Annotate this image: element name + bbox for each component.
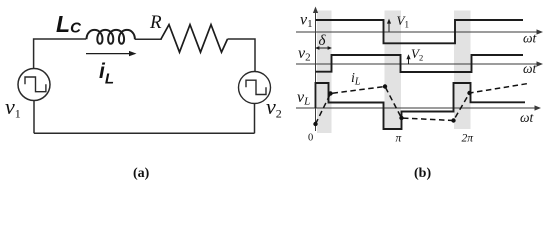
tick label pi <box>396 133 403 145</box>
wire top-left from corner to inductor <box>34 39 86 69</box>
shaded band C (delta interval at 2pi) <box>454 11 471 130</box>
wire resistor to right corner and down <box>228 39 256 72</box>
source V1 circle <box>18 69 50 101</box>
label v2 (panel 2) <box>298 45 311 64</box>
node dot 5 <box>451 118 455 122</box>
svg-text:LC: LC <box>56 11 82 37</box>
current iL dashed curve <box>316 84 529 125</box>
svg-text:ωt: ωt <box>523 31 538 46</box>
delta label <box>319 33 327 49</box>
source V2 circle <box>239 72 271 104</box>
current arrow iL <box>86 51 137 56</box>
source V1 square-wave glyph <box>25 77 46 92</box>
svg-text:ωt: ωt <box>523 61 538 76</box>
wire bottom <box>34 132 255 134</box>
svg-text:V2: V2 <box>411 46 423 63</box>
caption (b) <box>414 166 431 181</box>
delta dimension arrow <box>315 46 332 50</box>
node dot 4 <box>399 116 403 120</box>
label v2 (right source) <box>266 94 282 121</box>
V2 amplitude arrow <box>406 54 410 64</box>
horizontal axis panel 2 (wt) <box>296 61 543 66</box>
waveform vL <box>316 83 526 129</box>
waveform v2 <box>316 55 524 72</box>
wire left vertical below source <box>33 101 35 134</box>
vertical axis <box>313 7 318 132</box>
label iL (panel 3) <box>351 71 361 88</box>
node dot 6 <box>467 91 471 95</box>
axis label wt panel 2 <box>523 61 538 76</box>
shaded band B (delta interval at pi) <box>385 11 402 130</box>
label R <box>149 12 162 33</box>
svg-text:δ: δ <box>319 33 327 49</box>
tick label 0 <box>308 133 313 144</box>
node dot 3 <box>383 84 387 88</box>
axis label wt panel 3 <box>520 110 535 125</box>
svg-text:ωt: ωt <box>520 110 535 125</box>
node dot 2 <box>328 91 332 95</box>
label v1 (left source) <box>5 94 21 121</box>
label v1 (panel 1) <box>300 12 313 31</box>
caption (a) <box>133 166 150 181</box>
label iL <box>99 60 114 88</box>
svg-text:R: R <box>149 12 162 33</box>
label V2 <box>411 46 423 63</box>
label V1 <box>397 13 409 30</box>
svg-text:2π: 2π <box>462 133 475 145</box>
shaded band A (delta interval at 0) <box>317 11 332 134</box>
source V2 square-wave glyph <box>246 80 266 94</box>
inductor LC (4 humps) <box>87 30 135 44</box>
svg-text:v2: v2 <box>266 94 282 121</box>
svg-text:v1: v1 <box>5 94 21 121</box>
axis label wt panel 1 <box>523 31 538 46</box>
tick label 2pi <box>462 133 475 145</box>
svg-text:(b): (b) <box>414 166 431 181</box>
wire right vertical below source V2 <box>254 104 256 134</box>
svg-text:V1: V1 <box>397 13 409 30</box>
label vL (panel 3) <box>297 89 310 108</box>
horizontal axis panel 1 (wt) <box>296 29 543 34</box>
svg-text:vL: vL <box>297 89 310 108</box>
label LC <box>56 11 82 37</box>
svg-text:(a): (a) <box>133 166 150 181</box>
svg-text:π: π <box>396 133 403 145</box>
V1 amplitude arrow <box>387 19 391 32</box>
svg-text:iL: iL <box>351 71 361 88</box>
wire inductor to resistor <box>135 38 161 40</box>
horizontal axis panel 3 (wt) <box>296 105 541 110</box>
svg-text:v1: v1 <box>300 12 313 31</box>
svg-text:v2: v2 <box>298 45 311 64</box>
node dot 1 <box>313 122 317 126</box>
waveform v1 <box>316 20 524 43</box>
svg-text:0: 0 <box>308 133 313 144</box>
resistor R zigzag <box>161 25 228 53</box>
svg-text:iL: iL <box>99 60 114 88</box>
